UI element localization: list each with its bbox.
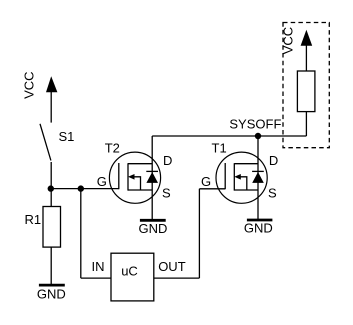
junction node at S1/R1 [48, 185, 54, 191]
svg-text:GND: GND [244, 221, 273, 236]
wire VCC stem to switch [50, 92, 52, 123]
junction node at SYSOFF/T1 drain [255, 133, 261, 139]
wire T2 drain-source vertical [151, 136, 153, 219]
transistor T2 source link [128, 189, 152, 191]
svg-text:GND: GND [139, 221, 168, 236]
power arrow VCC left [46, 76, 57, 92]
svg-text:T1: T1 [212, 141, 227, 156]
svg-text:S: S [268, 185, 277, 200]
svg-text:S: S [162, 185, 171, 200]
svg-text:IN: IN [92, 259, 105, 274]
transistor T2 bulk arrow [128, 174, 135, 180]
transistor T1 body diode triangle [252, 172, 264, 183]
resistor R1 [43, 207, 61, 248]
svg-text:VCC: VCC [22, 71, 37, 98]
wire OUT branch horizontal [154, 277, 200, 279]
wire IN branch vertical [80, 189, 82, 279]
power arrow VCC right [301, 30, 313, 46]
transistor T1 drain link [234, 163, 258, 165]
transistor T1 bulk link [240, 177, 247, 190]
svg-text:G: G [97, 174, 107, 189]
transistor T1 body circle [216, 152, 267, 203]
resistor pull-up [297, 71, 315, 112]
transistor T2 drain link [128, 163, 152, 165]
ground (T2) [140, 219, 166, 222]
wire OUT branch vertical [198, 189, 200, 278]
svg-text:VCC: VCC [281, 27, 296, 54]
svg-text:S1: S1 [59, 129, 75, 144]
svg-text:T2: T2 [105, 141, 120, 156]
transistor T2 gate bar [118, 163, 120, 189]
transistor T2 body circle [109, 152, 160, 203]
transistor T1 channel bar [233, 163, 235, 190]
svg-text:uC: uC [121, 263, 138, 278]
wire pull-up stem lower [305, 112, 307, 137]
ground (left) [39, 284, 65, 287]
transistor T1 bulk arrow [234, 174, 241, 180]
wire switch to R1 [50, 162, 52, 207]
wire T1 drain-source vertical [257, 136, 259, 219]
svg-text:D: D [269, 153, 278, 168]
svg-text:GND: GND [37, 286, 66, 301]
transistor T1 gate bar [224, 163, 226, 189]
junction node at IN branch [78, 185, 84, 191]
dashed option box [283, 23, 329, 148]
svg-text:R1: R1 [25, 212, 42, 227]
switch S1 blade [40, 124, 51, 161]
svg-text:G: G [201, 174, 211, 189]
ground (T1) [247, 219, 273, 222]
transistor T2 body diode cathode [146, 170, 158, 172]
svg-text:SYSOFF: SYSOFF [229, 117, 281, 132]
wire R1 to ground [50, 247, 52, 284]
transistor T2 channel bar [127, 163, 129, 190]
wire gate bus (node G of T2) [51, 188, 119, 190]
wire gate lead T1 [199, 188, 225, 190]
transistor T1 source link [234, 189, 258, 191]
wire SYSOFF net horizontal [152, 135, 306, 137]
wire pull-up stem upper [305, 45, 307, 71]
transistor T2 bulk link [134, 177, 141, 190]
svg-text:D: D [163, 153, 172, 168]
wire IN branch horizontal [81, 277, 111, 279]
transistor T2 body diode triangle [146, 172, 158, 183]
svg-text:OUT: OUT [158, 259, 186, 274]
op-amp uC block [111, 253, 154, 301]
transistor T1 body diode cathode [252, 170, 264, 172]
